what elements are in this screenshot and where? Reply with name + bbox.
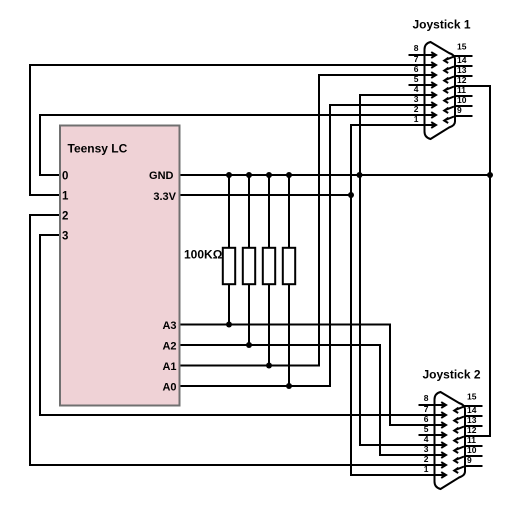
svg-text:9: 9 bbox=[467, 455, 472, 465]
svg-text:5: 5 bbox=[414, 74, 419, 84]
wire J2 pin 12 horizontal bbox=[480, 435, 491, 437]
svg-text:13: 13 bbox=[457, 65, 467, 75]
svg-text:9: 9 bbox=[457, 105, 462, 115]
svg-text:11: 11 bbox=[467, 435, 476, 445]
wire A0 vertical to J1 pin 3 bbox=[329, 104, 331, 387]
wire Teensy pin 2 vertical bbox=[29, 214, 31, 466]
svg-text:1: 1 bbox=[62, 191, 69, 203]
Joystick 1 pin 2 (left, arrow) bbox=[409, 112, 437, 118]
svg-text:Joystick 2: Joystick 2 bbox=[422, 368, 480, 382]
svg-text:GND: GND bbox=[149, 170, 174, 182]
Joystick 1 pin 1 (left, arrow) bbox=[409, 122, 437, 128]
Joystick 1 pin 6 number label bbox=[414, 64, 419, 74]
svg-text:A0: A0 bbox=[162, 382, 176, 394]
svg-text:10: 10 bbox=[467, 445, 477, 455]
wire Teensy pin 3 stub bbox=[40, 234, 61, 236]
wire J1 pin 12 horizontal bbox=[470, 85, 491, 87]
Teensy LC U1 bbox=[60, 126, 180, 406]
Joystick 2 pin 4 (left, arrow) bbox=[419, 442, 447, 448]
svg-text:1: 1 bbox=[424, 464, 429, 474]
svg-text:Joystick 1: Joystick 1 bbox=[412, 18, 470, 32]
wire J1 pin 3 horizontal bbox=[329, 104, 424, 106]
Joystick 2 pin 10 (right, arrow) bbox=[454, 456, 482, 463]
Joystick 2 pin 15 number label bbox=[467, 392, 477, 402]
svg-text:6: 6 bbox=[424, 414, 429, 424]
pin 3 label bbox=[62, 231, 68, 243]
svg-text:A3: A3 bbox=[162, 320, 176, 332]
Joystick 1 pin 5 number label bbox=[414, 74, 419, 84]
Joystick 1 pin 8 number label bbox=[414, 43, 419, 53]
wire GND vertical J1 pin4 to J2 pin4 bbox=[359, 94, 361, 446]
Joystick 2 pin 11 number label bbox=[467, 435, 476, 445]
svg-text:3.3V: 3.3V bbox=[153, 191, 176, 203]
svg-text:3: 3 bbox=[414, 94, 419, 104]
Joystick 1 pin 1 number label bbox=[414, 114, 419, 124]
node junction GND-R4 bbox=[286, 172, 292, 178]
Joystick 1 pin 5 (left, arrow) bbox=[409, 82, 437, 88]
svg-text:2: 2 bbox=[424, 454, 429, 464]
wire A1 vertical to J1 pin 6 bbox=[318, 74, 320, 367]
Joystick 1 pin 6 (left, arrow) bbox=[409, 72, 437, 78]
svg-text:14: 14 bbox=[457, 55, 467, 65]
wire Teensy pin 0 to J1 pin 2 bbox=[39, 114, 424, 116]
Joystick 2 pin 2 (left, arrow) bbox=[419, 462, 447, 468]
wire A1 horizontal bbox=[180, 365, 320, 367]
Joystick 1 pin 4 (left, arrow) bbox=[409, 92, 437, 98]
Joystick 2 pin 4 number label bbox=[424, 434, 429, 444]
wire Teensy pin 3 to J2 pin 7 bbox=[39, 414, 434, 416]
resistor R1 100K bbox=[223, 175, 235, 326]
wire A3 horizontal bbox=[180, 324, 391, 326]
Joystick 2 pin 13 number label bbox=[467, 415, 477, 425]
svg-text:11: 11 bbox=[457, 85, 466, 95]
Joystick 2 pin 3 (left, arrow) bbox=[419, 452, 447, 458]
wire 3.3V vertical J1 pin1 to J2 pin1 bbox=[350, 124, 352, 476]
svg-text:3: 3 bbox=[62, 231, 68, 243]
Joystick 1 pin 14 number label bbox=[457, 55, 467, 65]
wire GND rail bbox=[180, 174, 490, 176]
Joystick 2 pin 11 (right, arrow) bbox=[454, 446, 482, 453]
Joystick 1 pin 10 number label bbox=[457, 95, 467, 105]
wire Teensy pin 1 vertical bbox=[29, 64, 31, 196]
wire Teensy pin 2 stub bbox=[30, 214, 61, 216]
wire J2 pin 1 horizontal bbox=[350, 474, 434, 476]
Joystick 2 pin 8 number label bbox=[424, 393, 429, 403]
svg-text:8: 8 bbox=[424, 393, 429, 403]
svg-text:15: 15 bbox=[467, 392, 477, 402]
pin A0 label bbox=[162, 382, 176, 394]
Joystick 2 pin 12 number label bbox=[467, 425, 477, 435]
Joystick 2 pin 7 (left, arrow) bbox=[419, 412, 447, 418]
resistor value label 100K ohm bbox=[184, 248, 223, 262]
wire 3.3V rail bbox=[180, 194, 352, 196]
Joystick 2 title bbox=[422, 368, 480, 382]
svg-text:0: 0 bbox=[62, 171, 68, 183]
Joystick 1 pin 13 number label bbox=[457, 65, 467, 75]
svg-text:10: 10 bbox=[457, 95, 467, 105]
pin A1 label bbox=[162, 361, 176, 373]
node junction A0-R4 bbox=[286, 383, 292, 389]
svg-text:12: 12 bbox=[467, 425, 477, 435]
node junction A2-R2 bbox=[246, 342, 252, 348]
svg-text:6: 6 bbox=[414, 64, 419, 74]
connector Joystick 2 DB15 body bbox=[435, 392, 466, 489]
Joystick 1 pin 13 (right, arrow) bbox=[444, 76, 472, 83]
Joystick 2 pin 14 number label bbox=[467, 405, 477, 415]
Joystick 1 pin 8 (left, arrow) bbox=[409, 52, 437, 58]
node junction 3.3V bbox=[348, 192, 354, 198]
svg-text:14: 14 bbox=[467, 405, 477, 415]
Joystick 2 pin 3 number label bbox=[424, 444, 429, 454]
pin A3 label bbox=[162, 320, 176, 332]
Joystick 2 pin 1 number label bbox=[424, 464, 429, 474]
Joystick 1 pin 7 number label bbox=[414, 54, 419, 64]
Joystick 2 pin 9 (right, arrow) bbox=[454, 466, 482, 473]
pin 3.3V label bbox=[153, 191, 176, 203]
wire Teensy pin 3 vertical bbox=[39, 234, 41, 416]
svg-text:A1: A1 bbox=[162, 361, 176, 373]
svg-text:100KΩ: 100KΩ bbox=[184, 248, 223, 262]
Joystick 1 pin 11 number label bbox=[457, 85, 466, 95]
node junction A3-R1 bbox=[226, 322, 232, 328]
pin GND label bbox=[149, 170, 174, 182]
wire A0 horizontal bbox=[180, 385, 331, 387]
Joystick 2 pin 7 number label bbox=[424, 404, 429, 414]
pin A2 label bbox=[162, 341, 176, 353]
svg-text:Teensy LC: Teensy LC bbox=[68, 142, 128, 156]
pin 0 label bbox=[62, 171, 68, 183]
svg-text:5: 5 bbox=[424, 424, 429, 434]
Joystick 2 pin 15 (right, arrow) bbox=[454, 406, 482, 413]
svg-text:7: 7 bbox=[414, 54, 419, 64]
Joystick 2 pin 5 number label bbox=[424, 424, 429, 434]
node junction GND-R1 bbox=[226, 172, 232, 178]
Joystick 1 pin 4 number label bbox=[414, 84, 419, 94]
svg-text:1: 1 bbox=[414, 114, 419, 124]
node junction GND-J1.12 bbox=[487, 172, 493, 178]
Joystick 2 pin 6 (left, arrow) bbox=[419, 422, 447, 428]
svg-text:2: 2 bbox=[414, 104, 419, 114]
wire J1 pin 4 horizontal bbox=[359, 94, 424, 96]
svg-text:8: 8 bbox=[414, 43, 419, 53]
Joystick 1 pin 14 (right, arrow) bbox=[444, 66, 472, 73]
wire A2 to J2 pin 3 bbox=[379, 454, 434, 456]
Joystick 1 pin 12 number label bbox=[457, 75, 467, 85]
svg-text:3: 3 bbox=[424, 444, 429, 454]
wire Teensy pin 0 stub bbox=[40, 174, 61, 176]
connector Joystick 1 DB15 body bbox=[425, 42, 456, 139]
wire A2 vertical to J2 bbox=[379, 344, 381, 456]
node junction A1-R3 bbox=[266, 363, 272, 369]
Joystick 2 pin 9 number label bbox=[467, 455, 472, 465]
Joystick 1 pin 3 number label bbox=[414, 94, 419, 104]
Joystick 1 pin 15 (right, arrow) bbox=[444, 56, 472, 63]
Joystick 2 pin 5 (left, arrow) bbox=[419, 432, 447, 438]
svg-text:13: 13 bbox=[467, 415, 477, 425]
Joystick 2 pin 12 (right, arrow) bbox=[454, 436, 482, 443]
svg-text:7: 7 bbox=[424, 404, 429, 414]
node junction GND-J1.4 bbox=[357, 172, 363, 178]
svg-text:2: 2 bbox=[62, 211, 68, 223]
resistor R2 100K bbox=[243, 175, 255, 346]
wire GND right vertical J1 pin12 to J2 pin12 bbox=[489, 85, 491, 437]
wire Teensy pin 2 to J2 pin 2 bbox=[29, 464, 434, 466]
Joystick 2 pin 14 (right, arrow) bbox=[454, 416, 482, 423]
resistor R3 100K bbox=[263, 175, 275, 367]
node junction GND-R2 bbox=[246, 172, 252, 178]
Joystick 1 title bbox=[412, 18, 470, 32]
wire J1 pin 1 horizontal bbox=[350, 124, 424, 126]
Joystick 2 pin 10 number label bbox=[467, 445, 477, 455]
wire Teensy pin 1 to J1 pin 7 bbox=[29, 64, 424, 66]
svg-text:4: 4 bbox=[424, 434, 429, 444]
wire J2 pin 4 horizontal bbox=[359, 444, 434, 446]
Joystick 1 pin 11 (right, arrow) bbox=[444, 96, 472, 103]
resistor R4 100K bbox=[283, 175, 295, 387]
node junction GND-R3 bbox=[266, 172, 272, 178]
pin 1 label bbox=[62, 191, 69, 203]
Joystick 1 pin 9 (right, arrow) bbox=[444, 116, 472, 123]
Joystick 2 pin 6 number label bbox=[424, 414, 429, 424]
Joystick 2 pin 8 (left, arrow) bbox=[419, 402, 447, 408]
Joystick 1 pin 15 number label bbox=[457, 42, 467, 52]
wire A3 vertical to J2 bbox=[389, 324, 391, 427]
Joystick 1 pin 10 (right, arrow) bbox=[444, 106, 472, 113]
wire Teensy pin 0 vertical bbox=[39, 114, 41, 176]
wire A2 horizontal bbox=[180, 344, 381, 346]
wire Teensy pin 1 stub bbox=[30, 194, 61, 196]
Joystick 2 pin 2 number label bbox=[424, 454, 429, 464]
wire A3 to J2 pin 6 bbox=[389, 424, 434, 426]
Joystick 2 pin 13 (right, arrow) bbox=[454, 426, 482, 433]
Joystick 1 pin 9 number label bbox=[457, 105, 462, 115]
pin 2 label bbox=[62, 211, 68, 223]
svg-text:12: 12 bbox=[457, 75, 467, 85]
Joystick 1 pin 12 (right, arrow) bbox=[444, 86, 472, 93]
Joystick 2 pin 1 (left, arrow) bbox=[419, 472, 447, 478]
Joystick 1 pin 2 number label bbox=[414, 104, 419, 114]
svg-text:4: 4 bbox=[414, 84, 419, 94]
Joystick 1 pin 7 (left, arrow) bbox=[409, 62, 437, 68]
wire J1 pin 6 horizontal bbox=[318, 74, 424, 76]
Joystick 1 pin 3 (left, arrow) bbox=[409, 102, 437, 108]
svg-text:A2: A2 bbox=[162, 341, 176, 353]
svg-text:15: 15 bbox=[457, 42, 467, 52]
